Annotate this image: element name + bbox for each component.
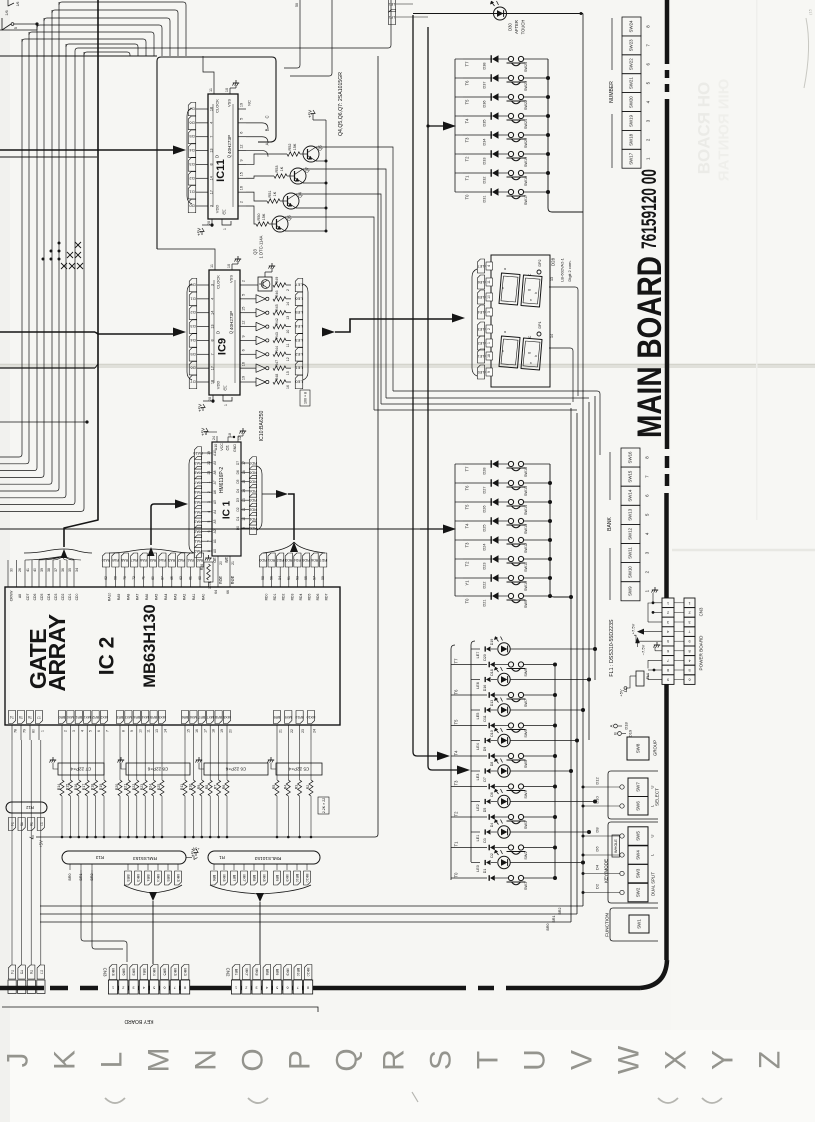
svg-text:RD6: RD6 — [316, 594, 320, 601]
net BR7 — [233, 864, 235, 870]
svg-text:SW4: SW4 — [524, 790, 528, 798]
pin 2 address RA6 IC1 — [194, 486, 201, 499]
svg-text:A6: A6 — [213, 490, 217, 494]
x-mark wire crossings — [75, 242, 81, 248]
pin 2 output of IC11 — [238, 205, 246, 207]
svg-text:D: D — [216, 331, 221, 334]
svg-text:RA7: RA7 — [136, 594, 140, 601]
svg-text:71: 71 — [142, 576, 146, 580]
svg-text:MK5: MK5 — [173, 968, 177, 975]
svg-text:RA10: RA10 — [193, 451, 203, 455]
IC1 GND pin 12 — [237, 436, 239, 442]
pin 17 input D6 of IC9 — [189, 361, 197, 375]
svg-text:W̅E̅: W̅E̅ — [225, 556, 229, 563]
pin 54 RD2 IC2 top — [277, 553, 284, 567]
wire IC11 pin to Q4 base — [246, 192, 267, 201]
resistor R5 — [276, 740, 278, 780]
svg-text:BR2: BR2 — [92, 715, 99, 719]
bracket IC9 input pins — [187, 284, 192, 380]
CN1 pin 7 — [662, 656, 674, 666]
svg-text:T3: T3 — [465, 137, 470, 143]
svg-text:4: 4 — [80, 730, 84, 732]
svg-text:C: C — [528, 335, 532, 338]
svg-text:A0: A0 — [213, 549, 217, 553]
CN3 power pin 5 — [684, 665, 695, 675]
svg-text:D1: D1 — [236, 517, 240, 521]
CN1 pin 6 — [662, 646, 674, 656]
svg-text:T3: T3 — [454, 780, 459, 786]
svg-text:R6: R6 — [222, 785, 226, 790]
svg-text:1: 1 — [112, 986, 114, 990]
bracket pill2 to CN2 — [210, 885, 311, 894]
wire Q6 emitter to +5V bus — [285, 230, 326, 232]
svg-text:D6: D6 — [190, 366, 196, 371]
svg-text:11: 11 — [286, 344, 290, 348]
svg-text:LE5: LE5 — [295, 310, 303, 315]
svg-text:58: 58 — [261, 576, 265, 580]
svg-text:MX4: MX4 — [142, 715, 149, 719]
array row T6 D37 SW23 — [463, 77, 492, 79]
pin 16 data RD6 IC1 — [249, 466, 256, 479]
svg-text:56: 56 — [270, 576, 274, 580]
pin box LE5 IC10 out — [295, 306, 303, 320]
svg-text:21: 21 — [231, 561, 235, 565]
transistor Q4 2SA1015 — [283, 193, 299, 209]
svg-text:SW5: SW5 — [524, 760, 528, 768]
bracket pill1 to CN3 — [124, 885, 182, 893]
CN3 power pin 2 — [684, 608, 695, 618]
svg-text:40H273P: 40H273P — [227, 135, 232, 154]
CN2 pin 2 MK7 — [243, 965, 251, 980]
svg-text:2: 2 — [667, 610, 669, 614]
pin 19 address RA10 IC1 — [194, 447, 201, 460]
svg-text:5: 5 — [276, 986, 278, 990]
svg-text:5: 5 — [688, 668, 690, 672]
svg-text:RA4: RA4 — [164, 594, 168, 601]
net BR6 — [213, 864, 215, 870]
svg-text:IC 1: IC 1 — [222, 500, 233, 519]
svg-text:D9: D9 — [483, 747, 487, 752]
output wedge IC9 block — [322, 328, 335, 337]
+5V feed FL1 — [624, 687, 627, 690]
resistor R2 — [310, 740, 312, 780]
IC2 gate array MB63H130 body — [5, 587, 340, 725]
svg-text:R5: R5 — [272, 785, 276, 790]
buffer stage 5 IC10 — [248, 353, 256, 355]
svg-text:7: 7 — [667, 658, 669, 662]
svg-text:R22: R22 — [132, 784, 136, 791]
resistor R4x stage 4 — [273, 338, 286, 342]
svg-text:R1: R1 — [219, 855, 225, 860]
svg-text:SW15: SW15 — [524, 486, 528, 496]
net BR0 stub — [69, 864, 71, 870]
svg-text:8: 8 — [207, 550, 211, 552]
svg-text:2: 2 — [688, 610, 690, 614]
wire Q6 collector run — [285, 217, 374, 410]
wire BR bus horizontals — [70, 870, 552, 893]
svg-text:MX0: MX0 — [67, 715, 74, 719]
array row T2 D23 SW11 — [463, 558, 492, 560]
SELECT group outline — [608, 771, 658, 819]
legend box SW19 — [622, 112, 641, 131]
display pin LE7 — [477, 259, 484, 273]
svg-text:D2: D2 — [236, 507, 240, 511]
svg-text:Z: Z — [754, 1051, 787, 1069]
svg-text:7: 7 — [207, 540, 211, 542]
svg-text:8: 8 — [688, 649, 690, 653]
pin 14 input D2 of IC9 — [189, 306, 197, 320]
resistor R51 1K — [267, 199, 280, 203]
svg-text:D2: D2 — [189, 176, 195, 181]
svg-text:5: 5 — [240, 118, 244, 120]
svg-text:+5V: +5V — [197, 228, 202, 236]
display pin LE4 — [477, 305, 484, 319]
switch row SW3 D5 — [451, 816, 487, 818]
bracket IC1 address pins — [189, 456, 194, 553]
svg-text:CLOCK: CLOCK — [215, 99, 220, 113]
svg-text:RA2: RA2 — [183, 594, 187, 601]
svg-text:BR6: BR6 — [182, 715, 189, 719]
svg-text:V: V — [566, 1050, 599, 1070]
svg-text:J: J — [2, 1053, 35, 1068]
svg-text:SW22: SW22 — [629, 58, 634, 71]
NUMBER array bus to right — [548, 59, 583, 212]
legend box SW22 — [622, 55, 641, 74]
CN2 pin 6 MK9 — [284, 965, 292, 980]
svg-text:2: 2 — [245, 986, 247, 990]
wire IC11 pin to Q5 base — [246, 154, 287, 164]
svg-text:R18: R18 — [91, 784, 95, 791]
svg-text:SW10: SW10 — [628, 566, 633, 579]
pin 57 RD6 IC2 top — [311, 553, 318, 567]
svg-text:VCC: VCC — [220, 443, 224, 451]
IC2 top pins misc — [7, 560, 9, 587]
svg-text:D13: D13 — [490, 700, 494, 707]
dot marks on bus — [58, 242, 61, 245]
svg-text:80: 80 — [32, 729, 36, 733]
svg-text:A2: A2 — [213, 529, 217, 533]
svg-text:D22: D22 — [483, 582, 487, 589]
svg-text:LE5: LE5 — [476, 713, 480, 720]
pin 5 address RA3 IC1 — [194, 515, 201, 528]
CN3 pin 7 MK5 — [171, 965, 179, 980]
svg-text:D10: D10 — [490, 730, 494, 737]
svg-text:TOUCH: TOUCH — [521, 20, 526, 35]
svg-text:13: 13 — [211, 324, 215, 328]
svg-text:BR8: BR8 — [265, 969, 269, 976]
svg-text:D5: D5 — [236, 479, 240, 483]
svg-text:Q4: Q4 — [298, 192, 303, 198]
CN2 pin 1 BR1 — [232, 965, 240, 980]
switch SW8 GROUP — [627, 737, 649, 760]
svg-text:6: 6 — [240, 132, 244, 134]
pin 6 output of IC9 — [240, 353, 248, 355]
svg-text:D19: D19 — [490, 639, 494, 646]
pin 16 MX6 IC2 bottom — [190, 711, 197, 724]
svg-text:VDD: VDD — [215, 205, 220, 214]
svg-text:RA1: RA1 — [194, 539, 201, 543]
svg-text:SW17: SW17 — [524, 195, 528, 205]
svg-text:CD1: CD1 — [68, 594, 72, 601]
svg-text:4: 4 — [667, 630, 669, 634]
wire bus line — [0, 52, 84, 511]
svg-text:U: U — [519, 1049, 552, 1071]
net MK5 — [177, 864, 179, 870]
svg-text:AFTER: AFTER — [514, 20, 519, 34]
svg-text:1: 1 — [667, 601, 669, 605]
resistor R21 — [127, 740, 129, 780]
svg-text:RD6: RD6 — [311, 558, 318, 562]
svg-text:1: 1 — [223, 228, 227, 230]
legend box SW10 — [621, 563, 640, 582]
svg-text:D4: D4 — [189, 148, 195, 153]
svg-text:+5V: +5V — [619, 689, 624, 697]
wire NUMBER array feed — [428, 125, 443, 127]
svg-text:SW23: SW23 — [629, 39, 634, 52]
resistor R9 — [201, 740, 203, 780]
svg-text:MK10: MK10 — [306, 968, 310, 977]
svg-text:1/6: 1/6 — [16, 2, 20, 7]
svg-text:IC 2: IC 2 — [96, 637, 119, 676]
pin 5 output of IC9 — [240, 298, 248, 300]
svg-text:19: 19 — [240, 103, 244, 107]
svg-text:DP2: DP2 — [538, 260, 542, 267]
svg-text:A10: A10 — [213, 450, 217, 456]
bracket IC1 data pins — [257, 466, 262, 530]
wire IC11 clock route — [203, 56, 214, 86]
display pin LE2 — [477, 336, 484, 350]
svg-text:3: 3 — [487, 311, 491, 313]
input wedge IC11 data bus — [173, 146, 186, 155]
svg-text:BR10: BR10 — [296, 968, 300, 977]
svg-text:LB-602VA2-1: LB-602VA2-1 — [560, 257, 565, 281]
display pin LE6 — [477, 275, 484, 289]
svg-text:SW12: SW12 — [524, 543, 528, 553]
CN3 pin 2 BR6 — [120, 965, 128, 980]
svg-text:4: 4 — [211, 298, 215, 300]
svg-text:40: 40 — [33, 568, 37, 572]
svg-text:D6: D6 — [236, 470, 240, 474]
svg-text:D7: D7 — [483, 777, 487, 782]
svg-text:R9: R9 — [197, 785, 201, 790]
svg-text:T4: T4 — [465, 523, 470, 529]
wire bus line — [0, 51, 75, 505]
svg-text:T7: T7 — [465, 61, 470, 67]
svg-text:N: N — [190, 1049, 223, 1071]
IC1 CS pin 18 — [228, 437, 234, 442]
svg-text:SW9: SW9 — [628, 586, 633, 596]
svg-text:RD2: RD2 — [277, 558, 284, 562]
pin 9 data RD0 IC1 — [249, 522, 256, 535]
svg-text:T2: T2 — [465, 561, 470, 567]
svg-text:D10: D10 — [595, 796, 600, 804]
CN1 pin7 pin8 pin9 FL1 — [648, 660, 662, 668]
svg-text:LE1: LE1 — [478, 354, 484, 358]
pin 19 BR8 IC2 bottom — [215, 711, 222, 724]
svg-text:R11: R11 — [180, 784, 184, 790]
svg-text:D0: D0 — [236, 526, 240, 530]
svg-text:54: 54 — [278, 576, 282, 580]
wire bus line — [0, 25, 37, 471]
svg-text:X: X — [660, 1050, 693, 1070]
svg-text:BR4: BR4 — [133, 715, 140, 719]
svg-text:SW15: SW15 — [628, 470, 633, 483]
svg-text:RD4: RD4 — [249, 489, 257, 493]
svg-text:5: 5 — [14, 27, 18, 29]
svg-text:15: 15 — [242, 307, 246, 311]
svg-text:RA3: RA3 — [173, 594, 177, 601]
buffer stage 3 IC10 — [248, 326, 256, 328]
svg-text:T0: T0 — [454, 872, 459, 878]
svg-text:Q7: Q7 — [305, 167, 310, 173]
svg-text:24: 24 — [313, 729, 317, 733]
svg-text:12: 12 — [242, 320, 246, 324]
CN3 power pin 9 — [684, 636, 695, 646]
svg-text:39: 39 — [40, 568, 44, 572]
svg-text:2: 2 — [207, 491, 211, 493]
svg-text:+5V: +5V — [198, 404, 203, 412]
net MK4 — [157, 864, 159, 870]
svg-text:9: 9 — [240, 159, 244, 161]
BANK array feed wedge — [443, 525, 456, 534]
wire nest bend — [22, 39, 146, 56]
svg-text:VSS: VSS — [227, 99, 232, 107]
svg-text:SW16: SW16 — [524, 467, 528, 477]
ground C8 — [121, 763, 126, 769]
svg-text:R50: R50 — [257, 214, 261, 221]
svg-text:18: 18 — [211, 380, 215, 384]
svg-text:GROUP: GROUP — [653, 740, 658, 756]
svg-text:4: 4 — [487, 265, 491, 267]
svg-text:BR8: BR8 — [252, 875, 256, 882]
svg-text:SW22: SW22 — [524, 100, 528, 110]
svg-text:R42: R42 — [275, 318, 279, 325]
svg-text:A3: A3 — [213, 519, 217, 523]
wire nest bend — [44, 18, 170, 56]
svg-text:RD5: RD5 — [302, 558, 309, 562]
svg-text:20: 20 — [219, 561, 223, 565]
wire bus line — [0, 32, 29, 464]
pin 6 output of IC11 — [238, 136, 246, 138]
capacitor network C7 22Px4 — [58, 763, 104, 775]
svg-text:IC9: IC9 — [217, 338, 229, 355]
CN3 power pin 7 — [684, 627, 695, 637]
svg-text:17: 17 — [210, 190, 214, 194]
svg-text:Q4,Q5,Q6,Q7: 2SA1015GR: Q4,Q5,Q6,Q7: 2SA1015GR — [338, 72, 344, 136]
svg-text:BR0: BR0 — [68, 874, 72, 881]
svg-text:16: 16 — [195, 729, 199, 733]
svg-text:D28: D28 — [483, 468, 487, 475]
svg-text:64: 64 — [214, 590, 218, 594]
svg-text:BR5: BR5 — [166, 875, 170, 882]
bracket IC2 CD pins — [24, 549, 92, 553]
svg-text:MX5: MX5 — [158, 715, 165, 719]
svg-text:9: 9 — [688, 639, 690, 643]
input wedge IC9 data bus — [173, 328, 186, 337]
pin 22 MX9 IC2 bottom — [285, 711, 292, 724]
svg-text:D16: D16 — [483, 685, 487, 692]
svg-text:R44: R44 — [275, 346, 279, 353]
transistor Q5 2SA1015 — [303, 146, 319, 162]
svg-text:FL1 : DSS310-55D223S: FL1 : DSS310-55D223S — [609, 619, 615, 677]
buffer stage 1 IC10 — [248, 298, 256, 300]
array row T2 D33 SW19 — [463, 153, 492, 155]
svg-text:R46: R46 — [275, 291, 279, 298]
wire Q4 collector run — [296, 194, 381, 404]
svg-text:LE0: LE0 — [295, 380, 303, 385]
svg-text:T7: T7 — [39, 970, 43, 974]
CN1 pin4 +7.5V arrow — [643, 631, 662, 633]
+5V feed pill1 — [186, 857, 192, 859]
svg-text:BR9: BR9 — [274, 715, 281, 719]
svg-text:LE1: LE1 — [476, 835, 480, 842]
pin 4 BR1 IC2 bottom — [75, 711, 82, 724]
resistor network R12 pill — [6, 802, 47, 813]
svg-text:A5: A5 — [213, 500, 217, 504]
pin 7 input D5 of IC9 — [189, 348, 197, 362]
pin 3 MX0 IC2 bottom — [67, 711, 74, 724]
pin 14 data RD4 IC1 — [249, 485, 256, 498]
svg-text:7: 7 — [174, 986, 176, 990]
array row T7 D28 SW16 — [463, 463, 492, 465]
svg-text:R47: R47 — [275, 360, 279, 367]
svg-text:MX7: MX7 — [207, 715, 214, 719]
svg-text:MB63H130: MB63H130 — [141, 604, 159, 687]
resistor R53 1K — [274, 174, 287, 178]
svg-text:MK4: MK4 — [152, 968, 156, 975]
svg-text:ARRAY: ARRAY — [44, 614, 70, 691]
svg-text:CD2: CD2 — [61, 594, 65, 601]
svg-text:T4: T4 — [10, 715, 14, 719]
legend box SW14 — [621, 486, 640, 505]
svg-text:SW6: SW6 — [524, 729, 528, 737]
svg-text:BOACЯ НO: BOACЯ НO — [695, 82, 714, 175]
svg-text:MAIN BOARD: MAIN BOARD — [631, 256, 669, 438]
svg-text:BR4: BR4 — [142, 969, 146, 976]
filter FL1 — [636, 671, 644, 686]
svg-text:RA9: RA9 — [117, 594, 121, 601]
LED row LE5 D13 — [471, 709, 480, 711]
resistor R10 — [192, 740, 194, 780]
svg-text:4: 4 — [207, 511, 211, 513]
svg-text:RD4: RD4 — [299, 594, 303, 601]
svg-text:T4: T4 — [454, 750, 459, 756]
svg-text:BR7: BR7 — [198, 715, 205, 719]
transistor Q7 2SA1015 — [290, 168, 306, 184]
svg-text:T4: T4 — [465, 118, 470, 124]
svg-text:D38: D38 — [483, 63, 487, 70]
svg-text:RA3: RA3 — [194, 520, 201, 524]
svg-text:67: 67 — [160, 576, 164, 580]
svg-text:BR9: BR9 — [275, 875, 279, 882]
svg-text:1: 1 — [41, 730, 45, 732]
svg-text:3: 3 — [211, 284, 215, 286]
left connector pin T7 — [40, 740, 42, 965]
svg-text:D34: D34 — [483, 139, 487, 146]
svg-text:RD2: RD2 — [282, 594, 286, 601]
svg-text:g: g — [527, 289, 531, 291]
svg-text:CD0: CD0 — [75, 594, 79, 601]
partial symbol top edge — [8, 0, 14, 6]
svg-text:+5V: +5V — [192, 847, 200, 852]
pin box LE6 IC10 out — [295, 292, 303, 306]
svg-text:BR10: BR10 — [295, 715, 304, 719]
svg-text:RA4: RA4 — [159, 558, 166, 562]
CN3 pin 8 MK3 — [181, 965, 189, 980]
svg-text:RD4: RD4 — [294, 558, 301, 562]
svg-text:51: 51 — [287, 576, 291, 580]
svg-text:MK7: MK7 — [244, 969, 248, 976]
